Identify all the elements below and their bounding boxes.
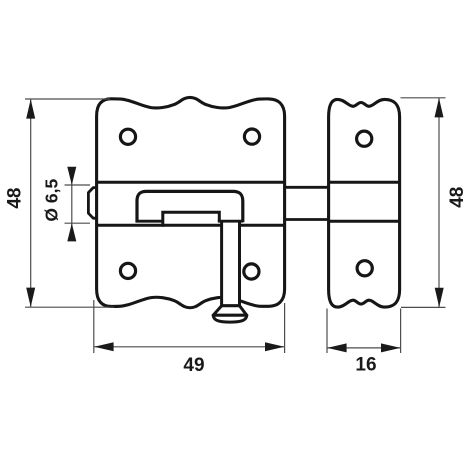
left 48 extension lines <box>25 98 110 100</box>
arrow left48 down <box>26 288 35 307</box>
arrow 49 left <box>94 342 113 351</box>
16 extension lines <box>326 309 328 354</box>
svg-text:16: 16 <box>355 354 376 375</box>
arrow 49 right <box>265 342 284 351</box>
bolt rod between plates <box>285 186 329 189</box>
channel bottom line left <box>136 220 163 223</box>
screw holes: main plate <box>120 129 135 144</box>
svg-text:Ø 6,5: Ø 6,5 <box>42 179 62 222</box>
guide band on main plate <box>97 181 285 184</box>
arrow dia top (down) <box>67 167 76 185</box>
slider plate <box>163 212 220 227</box>
guide band on keeper plate <box>329 181 400 184</box>
main plate outline <box>97 97 285 307</box>
svg-text:48: 48 <box>447 187 468 208</box>
svg-text:49: 49 <box>183 355 204 376</box>
right 48 extension lines <box>401 97 446 99</box>
arrow right48 down <box>435 288 444 307</box>
screw holes: keeper plate <box>357 131 372 146</box>
dia 6,5 extension lines <box>65 184 91 186</box>
knob foot bowl <box>213 315 247 322</box>
dia 6,5 dim line <box>71 167 73 241</box>
svg-text:48: 48 <box>5 188 26 209</box>
channel bottom line right / shaft top <box>218 220 243 223</box>
keeper plate outline <box>329 99 400 307</box>
49 dim line <box>94 346 285 348</box>
right 48 dim line <box>438 98 440 308</box>
handle <box>137 191 243 222</box>
49 extension lines <box>93 300 95 353</box>
arrow dia bottom (up) <box>67 223 76 241</box>
bolt end cap <box>88 188 97 219</box>
arrow right48 up <box>435 98 444 117</box>
left 48 dim line <box>30 99 32 307</box>
16 dim line <box>327 347 401 349</box>
arrow left48 up <box>26 99 35 118</box>
knob foot flare <box>213 306 247 316</box>
arrow 16 right <box>381 343 400 352</box>
knob shaft <box>222 223 240 306</box>
arrow 16 left <box>327 343 346 352</box>
